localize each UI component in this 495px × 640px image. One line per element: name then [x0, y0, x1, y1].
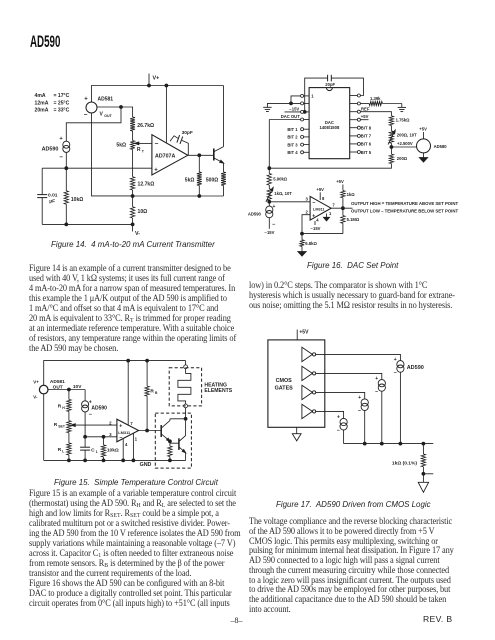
svg-text:−: − [59, 154, 63, 161]
svg-text:−15V: −15V [289, 107, 299, 112]
wire rail to heater (Fig 15) [185, 361, 187, 365]
svg-text:−: − [394, 370, 397, 376]
wire AD590 #1 to rail (Fig 17) [399, 372, 401, 443]
wire offset to DAC OUT (Fig 16) [268, 164, 392, 170]
inverter gate 2 (Fig 17) [302, 366, 316, 380]
resistor 5.90k (Fig 16) [267, 168, 288, 185]
svg-text:= 25°C: = 25°C [54, 100, 70, 106]
svg-text:V+: V+ [33, 380, 39, 385]
trimmer 200ohm 10T (Fig 16) [388, 130, 417, 144]
svg-text:4mA: 4mA [35, 93, 46, 99]
sensor AD590 (Fig 15) [82, 390, 108, 418]
transistor Q1 darlington (Fig 15) [161, 419, 170, 442]
svg-text:−: − [155, 141, 159, 148]
wire V- rail (Fig 14) [42, 223, 134, 226]
svg-text:BIT 1: BIT 1 [287, 127, 298, 132]
svg-text:12.7kΩ: 12.7kΩ [138, 182, 155, 188]
wire inverter 1 output (Fig 17) [316, 354, 401, 360]
svg-text:200Ω, 10T: 200Ω, 10T [397, 133, 417, 138]
svg-text:200Ω: 200Ω [397, 156, 408, 161]
svg-text:R: R [58, 447, 62, 453]
wire RH-RSET (Fig 15) [68, 412, 70, 421]
svg-text:−15V: −15V [311, 226, 321, 231]
node V- tick (Fig 14) [133, 224, 141, 237]
ground CMOS (Fig 17) [292, 427, 301, 441]
resistor RB (Fig 15) [145, 361, 158, 431]
wire op-amp output (Fig 14) [188, 154, 214, 157]
svg-text:BIT 7: BIT 7 [361, 134, 372, 139]
svg-text:R: R [54, 422, 58, 428]
svg-text:V: V [100, 112, 104, 118]
terminal upper (Fig 15) [184, 365, 188, 369]
pin +5V DAC (Fig 16) [350, 114, 369, 121]
svg-text:REF: REF [361, 106, 370, 111]
label outputs (Fig 16) [351, 201, 458, 214]
wire collector to V+ (Fig 14) [223, 86, 225, 147]
svg-text:+: + [312, 214, 315, 220]
svg-text:12mA: 12mA [35, 100, 49, 106]
svg-text:BIT 4: BIT 4 [287, 150, 298, 155]
svg-text:7: 7 [332, 203, 335, 208]
svg-text:V-: V- [33, 394, 38, 399]
node setpoint (Fig 16) [268, 200, 271, 203]
svg-text:4: 4 [125, 442, 128, 447]
svg-text:7: 7 [130, 421, 133, 426]
wire RSET-RL (Fig 15) [68, 433, 70, 443]
svg-text:+: + [119, 423, 122, 429]
svg-text:+: + [154, 168, 158, 174]
wire inverter 3 output (Fig 17) [316, 392, 365, 399]
svg-text:26.7kΩ: 26.7kΩ [137, 123, 154, 129]
svg-text:AD580: AD580 [434, 144, 448, 149]
svg-text:AD590: AD590 [407, 365, 424, 371]
wire V+ rail (Fig 14) [92, 86, 224, 103]
svg-text:1: 1 [96, 450, 98, 454]
svg-text:+: + [84, 97, 88, 103]
svg-text:−: − [337, 428, 340, 434]
resistor 12.7k (Fig 14) [130, 177, 154, 190]
ground pin1 (Fig 16) [324, 214, 330, 221]
svg-text:5.1MΩ: 5.1MΩ [347, 217, 360, 222]
wire pin4 -15V (Fig 16) [311, 221, 321, 231]
resistor 5k output (Fig 14) [185, 155, 202, 196]
resistor 10k (Fig 14) [64, 168, 83, 224]
resistor 1.75k (Fig 16) [389, 116, 410, 126]
svg-text:BIT 8: BIT 8 [361, 126, 372, 131]
resistor 10k (Fig 15) [101, 437, 119, 461]
sensor AD590 (Fig 16) [248, 202, 276, 235]
sensor AD590 #4 (Fig 17) [337, 415, 347, 435]
svg-text:10V: 10V [73, 384, 82, 390]
node V+ tick (Fig 14) [148, 74, 160, 87]
pin BIT6 (Fig 16) [350, 142, 372, 147]
pin BIT3 (Fig 16) [287, 142, 309, 147]
wire AD581 minus return (Fig 14) [92, 113, 133, 196]
pin BIT7 (Fig 16) [350, 134, 372, 139]
svg-text:+: + [337, 415, 340, 421]
terminal lower (Fig 15) [184, 404, 188, 408]
wire common node (Fig 14) [133, 195, 224, 198]
svg-text:DAC OUT: DAC OUT [281, 114, 301, 119]
resistor 1k 0.1% (Fig 17) [392, 444, 433, 483]
svg-text:SET: SET [58, 424, 66, 428]
svg-text:2: 2 [306, 210, 309, 215]
wire plus input feedback (Fig 16) [301, 215, 343, 235]
resistor 10ohm (Fig 14) [130, 196, 147, 224]
voltage reference AD581 (Fig 14) [84, 97, 113, 119]
pin BIT1 (Fig 16) [287, 127, 309, 132]
sensor AD590 #1 (Fig 17) [394, 357, 424, 377]
label current legend (Fig 14) [35, 93, 70, 113]
svg-text:5.90kΩ: 5.90kΩ [273, 176, 287, 181]
inverter gate 3 (Fig 17) [302, 385, 316, 399]
wire AD590 #4 to rail (Fig 17) [343, 430, 345, 444]
svg-text:C: C [91, 448, 95, 454]
wire ground rail (Fig 15) [44, 459, 186, 468]
wire Q2 emitter (Fig 15) [185, 453, 187, 461]
wire V_OUT to AD590 (Fig 14) [66, 107, 121, 141]
svg-text:LM311: LM311 [118, 430, 131, 435]
svg-text:BIT 3: BIT 3 [287, 142, 298, 147]
svg-text:1kΩ: 1kΩ [347, 192, 356, 197]
svg-text:+: + [375, 376, 378, 382]
transistor Q1 NPN (Fig 14) [214, 147, 224, 163]
pin P1 (Fig 16) [291, 94, 309, 103]
voltage reference AD581 (Fig 15) [33, 379, 65, 399]
ground right (Fig 16) [398, 104, 406, 112]
sensor AD590 #2 (Fig 17) [375, 376, 385, 396]
svg-text:AD581: AD581 [50, 379, 65, 385]
svg-text:R: R [150, 389, 154, 395]
box heating elements (Fig 15) [169, 368, 233, 406]
svg-text:1408/1508: 1408/1508 [320, 125, 340, 130]
wire pin1 (Fig 15) [132, 433, 135, 462]
svg-text:CMOS: CMOS [276, 378, 293, 384]
svg-text:T: T [142, 150, 145, 154]
svg-text:5kΩ: 5kΩ [116, 143, 126, 149]
pin REF (Fig 16) [350, 106, 392, 116]
pin comp (Fig 16) [350, 94, 361, 97]
svg-text:V-: V- [135, 231, 140, 237]
svg-text:10kΩ: 10kΩ [71, 197, 83, 203]
svg-text:+: + [358, 395, 361, 401]
wire AD581 output to ladder (Fig 14) [97, 106, 133, 117]
inverter gate 1 (Fig 17) [302, 347, 316, 361]
resistor 1k pullup (Fig 16) [336, 179, 355, 208]
svg-text:= 17°C: = 17°C [54, 93, 70, 99]
node op-amp supply tap (Fig 14) [165, 84, 168, 143]
wire Q1 collector (Fig 15) [170, 417, 187, 420]
svg-text:+2.500V: +2.500V [397, 141, 413, 146]
capacitor 0.01uF (Fig 14) [37, 168, 58, 224]
pin BIT2 (Fig 16) [287, 135, 309, 140]
wire op-amp plus input net (Fig 14) [42, 167, 152, 170]
svg-text:−: − [272, 222, 275, 228]
svg-text:= 33°C: = 33°C [54, 108, 70, 114]
svg-text:5kΩ: 5kΩ [185, 178, 195, 184]
wire chain b (Fig 16) [268, 185, 270, 189]
resistor 5.1M (Fig 16) [341, 208, 360, 233]
svg-text:AD590: AD590 [91, 406, 107, 412]
resistor RH (Fig 15) [58, 390, 71, 412]
svg-text:+5V: +5V [299, 329, 309, 335]
pin DAC OUT (Fig 16) [269, 114, 309, 121]
svg-text:−15V: −15V [265, 230, 275, 235]
wire AD590 to minus input (Fig 15) [84, 412, 117, 438]
box power stage (Fig 15) [155, 413, 191, 468]
svg-text:BIT 2: BIT 2 [287, 135, 298, 140]
wire heater feed (Fig 15) [185, 408, 187, 419]
ground 6.8k (Fig 16) [298, 252, 306, 256]
resistor RL (Fig 15) [58, 443, 71, 461]
trimmer 5k RT (Fig 14) [116, 141, 151, 154]
sensor AD590 #3 (Fig 17) [358, 395, 368, 415]
svg-text:R: R [137, 147, 141, 153]
wire setpoint to comparator (Fig 16) [269, 201, 310, 203]
wire Q1 emitter to Q2 base (Fig 15) [169, 440, 179, 443]
transistor Q2 darlington (Fig 15) [179, 419, 186, 453]
resistor 26.7k (Fig 14) [130, 117, 154, 131]
svg-text:+5V: +5V [361, 114, 369, 119]
wire AD590 to plus-input node (Fig 14) [65, 152, 67, 168]
pin BIT5 (Fig 16) [350, 150, 372, 155]
IC DAC 1408/1508 (Fig 16) [309, 88, 350, 159]
svg-text:+: + [273, 204, 276, 210]
svg-text:GATES: GATES [275, 385, 294, 391]
svg-text:H: H [62, 406, 65, 410]
op-amp AD707A U1 (Fig 14) [152, 135, 188, 175]
svg-text:2: 2 [109, 420, 112, 425]
svg-text:1: 1 [135, 436, 138, 441]
svg-text:20pF: 20pF [325, 82, 335, 87]
resistor 200ohm (Fig 16) [389, 147, 408, 164]
svg-text:6.8kΩ: 6.8kΩ [305, 241, 317, 246]
svg-text:AD590: AD590 [248, 212, 262, 217]
wire comparator output (Fig 16) [331, 207, 352, 210]
svg-text:4: 4 [316, 217, 319, 222]
wire inverter 4 output (Fig 17) [316, 411, 344, 418]
wire chain a (Fig 16) [390, 126, 392, 131]
wire pin4 (Fig 15) [122, 439, 125, 462]
pin BIT4 (Fig 16) [287, 150, 309, 155]
svg-text:+: + [394, 357, 397, 363]
svg-text:3: 3 [306, 196, 309, 201]
svg-text:AD581: AD581 [98, 97, 114, 103]
ground left (Fig 16) [263, 103, 271, 111]
wire pin8 +5V (Fig 16) [316, 187, 324, 200]
pin -15V (Fig 16) [285, 107, 310, 114]
heater element (Fig 15) [178, 369, 191, 404]
capacitor 30pF (Fig 14) [170, 130, 193, 156]
comparator LM311 (Fig 15) [109, 419, 138, 447]
svg-text:GND: GND [140, 462, 152, 468]
node +5V tick (Fig 17) [297, 329, 309, 340]
svg-text:+: + [59, 136, 63, 142]
svg-text:10kΩ: 10kΩ [107, 448, 119, 454]
box CMOS gates (Fig 17) [268, 340, 325, 427]
svg-text:1.39k: 1.39k [370, 96, 381, 101]
wire ladder segment c (Fig 14) [131, 190, 134, 197]
capacitor 20pF (Fig 16) [303, 75, 363, 114]
svg-text:BIT 6: BIT 6 [361, 142, 372, 147]
wire AD581 ground leg (Fig 15) [43, 394, 45, 461]
svg-text:−: − [358, 409, 361, 415]
resistor 500ohm (Fig 14) [206, 172, 226, 196]
svg-text:AD707A: AD707A [155, 154, 175, 160]
svg-text:+5V: +5V [336, 179, 344, 184]
svg-text:1.75kΩ: 1.75kΩ [396, 117, 410, 122]
wire AD590 #2 to rail (Fig 17) [381, 391, 383, 443]
svg-text:1kΩ, 10T: 1kΩ, 10T [274, 191, 292, 196]
wire ladder segment b (Fig 14) [132, 150, 134, 177]
capacitor C1 (Fig 15) [80, 437, 98, 461]
resistor base-emitter (Fig 15) [168, 443, 172, 462]
svg-text:BIT 5: BIT 5 [361, 150, 372, 155]
svg-text:−: − [375, 389, 378, 395]
trimmer RSET (Fig 15) [54, 421, 117, 433]
svg-text:B: B [155, 391, 158, 395]
pin BIT8 (Fig 16) [350, 126, 372, 131]
svg-text:OUT: OUT [104, 114, 112, 118]
svg-text:OUTPUT HIGH = TEMPERATURE ABOV: OUTPUT HIGH = TEMPERATURE ABOVE SET POIN… [351, 201, 458, 206]
svg-text:8: 8 [322, 196, 325, 201]
svg-text:0.01: 0.01 [48, 193, 58, 199]
svg-text:500Ω: 500Ω [206, 178, 218, 184]
svg-text:L: L [62, 449, 64, 453]
wire emitter to 500ohm (Fig 14) [223, 163, 225, 172]
pin ground row (Fig 16) [267, 102, 309, 105]
ground output (Fig 17) [418, 482, 428, 492]
svg-text:−: − [84, 111, 88, 118]
svg-text:30pF: 30pF [182, 130, 193, 136]
svg-text:−: − [89, 412, 93, 418]
comparator LM311 (Fig 16) [306, 196, 336, 222]
svg-text:V+: V+ [153, 76, 160, 82]
svg-text:µF: µF [49, 198, 55, 204]
wire inverter 2 output (Fig 17) [316, 373, 382, 379]
wire pin7 supply (Fig 15) [127, 361, 129, 426]
resistor 6.8k (Fig 16) [300, 234, 318, 252]
wire summing rail (Fig 17) [344, 442, 434, 445]
wire comparator output (Fig 15) [139, 429, 162, 432]
trimmer 1k 10T (Fig 16) [266, 188, 292, 202]
sensor AD590 (Fig 14) [42, 136, 70, 161]
svg-text:1: 1 [329, 211, 332, 216]
svg-text:R: R [58, 404, 62, 410]
voltage reference AD580 (Fig 16) [391, 127, 447, 162]
wire ladder segment a (Fig 14) [132, 131, 134, 141]
node +2.500V (Fig 16) [390, 141, 413, 148]
pin 1.39k row (Fig 16) [350, 96, 402, 105]
svg-text:1kΩ (0.1%): 1kΩ (0.1%) [392, 460, 417, 466]
wire top rail (Fig 15) [44, 359, 186, 385]
svg-text:AD590: AD590 [42, 146, 59, 152]
svg-text:OUTPUT LOW – TEMPERATURE BELOW: OUTPUT LOW – TEMPERATURE BELOW SET POINT [351, 209, 458, 214]
svg-text:+5V: +5V [316, 187, 324, 192]
wire AD590 #3 to rail (Fig 17) [364, 411, 366, 444]
svg-text:ELEMENTS: ELEMENTS [204, 388, 232, 394]
svg-text:−: − [312, 201, 315, 207]
wire DAC OUT drop (Fig 16) [268, 120, 270, 169]
svg-text:LM311: LM311 [313, 208, 325, 212]
svg-text:+5V: +5V [419, 127, 427, 132]
wire AD581 out 10V (Fig 15) [48, 384, 85, 391]
svg-text:20mA: 20mA [35, 108, 49, 114]
svg-text:10Ω: 10Ω [138, 209, 148, 215]
inverter gate 4 (Fig 17) [302, 404, 316, 418]
